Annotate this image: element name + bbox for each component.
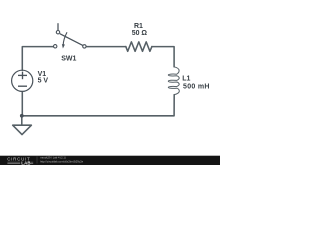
wire: V1 positive terminal up to top-left corner and right to switch SW1 left terminal [22, 47, 53, 71]
watermark bar [0, 156, 220, 165]
svg-text:5 V: 5 V [38, 77, 49, 84]
svg-text:L1: L1 [182, 75, 190, 82]
switch SW1 actuation arrow [63, 32, 67, 45]
wire: inductor L1 bottom to bottom-right corner and left to ground junction [22, 95, 174, 116]
watermark text lines [40, 156, 83, 164]
switch SW1 lever [60, 34, 83, 46]
resistor R1 [126, 42, 152, 51]
switch SW1 [54, 23, 87, 48]
svg-text:http://circuitlab.com/c6x2bm3t: http://circuitlab.com/c6x2bm3t29c2e [40, 159, 83, 163]
svg-text:LAB: LAB [21, 161, 30, 165]
switch SW1 top terminal [56, 31, 59, 34]
wire: resistor R1 right lead to top-right corner down to inductor L1 top [152, 47, 174, 67]
svg-text:50 Ω: 50 Ω [132, 30, 148, 37]
svg-text:SW1: SW1 [61, 55, 76, 62]
switch SW1 right terminal [83, 45, 86, 48]
wire: V1 negative terminal down to ground junction [21, 92, 23, 116]
switch SW1 arrowhead [62, 44, 65, 48]
switch SW1 left terminal [54, 45, 57, 48]
switch SW1 top throw stub [57, 23, 59, 30]
svg-text:mrock29 / Lab 4 (2.1): mrock29 / Lab 4 (2.1) [40, 156, 66, 160]
inductor L1 [168, 67, 179, 95]
watermark divider [36, 157, 38, 164]
svg-text:500 mH: 500 mH [183, 83, 210, 90]
wire: junction down to ground symbol [21, 116, 23, 125]
watermark CircuitLab logo [7, 157, 33, 166]
voltage source V1 [12, 70, 33, 91]
ground [13, 125, 32, 134]
wire: switch SW1 right terminal to resistor R1 left lead [86, 46, 125, 48]
node: junction dot at V1 negative / ground net [20, 114, 24, 118]
svg-text:R1: R1 [134, 23, 143, 30]
